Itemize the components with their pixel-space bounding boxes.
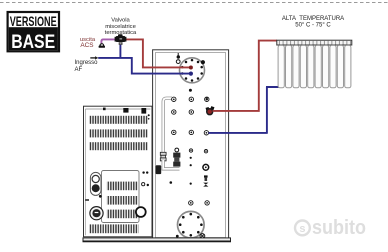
small knob dot	[99, 195, 102, 198]
perforation dashed line	[0, 2, 388, 4]
pipe red valve to flange	[125, 39, 189, 67]
door grille row 3	[107, 210, 139, 219]
big ring port	[203, 164, 209, 170]
blue port dot on flange	[189, 72, 193, 76]
radiator	[277, 40, 352, 88]
boiler grille row 1	[89, 116, 148, 124]
flue ring	[136, 207, 146, 217]
port above fitting stack	[175, 148, 179, 152]
door grille row 2	[107, 196, 139, 205]
top flange	[180, 58, 205, 83]
label alta temperatura	[282, 16, 344, 28]
safety valve	[203, 175, 208, 186]
pipe fittings	[160, 152, 166, 155]
drain valve	[200, 234, 205, 239]
dark elbow flange left	[156, 165, 162, 174]
panel outer box	[153, 50, 229, 241]
door grille row 1	[107, 182, 139, 191]
label ingresso AF	[75, 60, 99, 73]
svg-text:ACS: ACS	[80, 42, 93, 49]
small fittings right of door	[142, 171, 144, 173]
logo VERSIONE BASE	[8, 12, 59, 53]
boiler inner lid line	[85, 108, 150, 110]
svg-text:BASE: BASE	[11, 32, 55, 53]
air vent valve	[176, 53, 180, 63]
svg-text:Ingresso: Ingresso	[75, 60, 99, 66]
port below flange	[189, 89, 192, 92]
bottom flange	[178, 211, 205, 238]
valve body	[115, 34, 127, 45]
faucet ACS	[99, 43, 105, 48]
boiler unit	[84, 106, 153, 237]
boiler grille row 3	[89, 142, 148, 150]
red port dot on flange	[189, 66, 193, 70]
svg-text:50° C - 75° C: 50° C - 75° C	[295, 22, 331, 28]
svg-text:s: s	[299, 223, 305, 235]
pump	[206, 106, 215, 115]
svg-text:ALTA TEMPERATURA: ALTA TEMPERATURA	[282, 16, 344, 22]
boiler pump	[90, 207, 103, 220]
watermark subito	[295, 217, 366, 239]
pipe red pump to radiator	[213, 41, 278, 111]
lower elbow pipe	[163, 160, 179, 169]
dark fitting stack right	[173, 153, 180, 158]
svg-text:AF: AF	[75, 67, 83, 73]
svg-text:subito: subito	[312, 217, 366, 239]
label uscita ACS	[80, 37, 96, 49]
small dots column	[190, 157, 192, 159]
sensor dot top right of flange	[201, 60, 205, 64]
boiler door	[102, 171, 140, 223]
base bar	[83, 238, 231, 242]
left pipe column	[163, 98, 172, 154]
burner capsule gauge	[90, 172, 101, 195]
boiler bottom grille row	[89, 224, 139, 233]
boiler grille row 2	[89, 129, 148, 137]
svg-text:Valvola: Valvola	[111, 18, 130, 24]
svg-text:VERSIONE: VERSIONE	[10, 13, 57, 29]
panel inner frame	[155, 53, 225, 238]
hydraulic panel	[153, 50, 229, 241]
arrow ingresso AF	[90, 56, 98, 59]
pipe blue radiator return	[209, 87, 280, 134]
ports grid	[170, 97, 210, 205]
dash mark	[85, 199, 89, 201]
boiler outer box	[84, 106, 153, 237]
svg-text:miscelatrice: miscelatrice	[105, 24, 136, 30]
label valvola miscelatrice termostatica	[105, 18, 137, 37]
pipe magenta uscita ACS	[101, 39, 116, 43]
pipe blue ingresso AF to flange	[98, 44, 189, 73]
boiler top fittings	[103, 108, 106, 111]
